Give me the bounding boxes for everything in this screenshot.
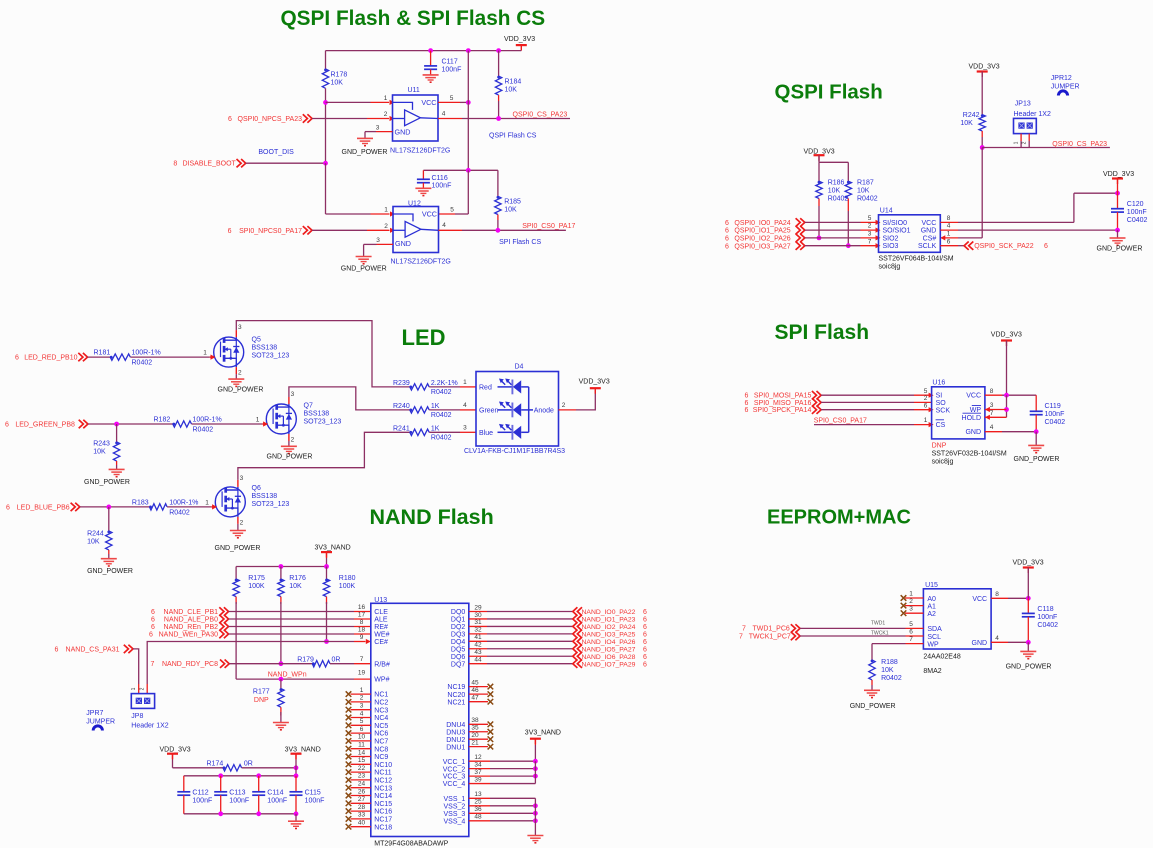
svg-text:8: 8 [995, 591, 999, 598]
ground under C116 [415, 187, 431, 189]
svg-text:Green: Green [479, 407, 499, 414]
svg-text:VSS_2: VSS_2 [444, 803, 466, 810]
svg-text:VCC: VCC [922, 220, 937, 227]
svg-text:Blue: Blue [479, 430, 493, 437]
svg-text:SPI0_NPCS0_PA17: SPI0_NPCS0_PA17 [239, 228, 302, 235]
wire VCC_1 to 3V3_NAND [490, 760, 535, 762]
pin NC13 no-connect U13 [351, 787, 371, 789]
svg-text:2: 2 [240, 519, 244, 526]
svg-text:R239: R239 [393, 380, 410, 387]
node cap gnd rail C113 [218, 811, 223, 816]
svg-text:C0402: C0402 [1045, 419, 1066, 426]
svg-text:10K: 10K [857, 187, 870, 194]
capacitor C116 [422, 170, 424, 179]
wire REn [229, 626, 355, 628]
svg-text:DISABLE_BOOT: DISABLE_BOOT [183, 161, 237, 168]
svg-text:100nF: 100nF [267, 797, 287, 804]
svg-text:4: 4 [463, 402, 467, 409]
svg-text:100R-1%: 100R-1% [169, 500, 198, 507]
capacitor C118 [1027, 598, 1029, 613]
svg-text:3: 3 [868, 231, 872, 238]
svg-text:DQ3: DQ3 [451, 631, 466, 638]
svg-text:CLE: CLE [374, 609, 388, 616]
svg-text:100nF: 100nF [442, 66, 462, 73]
svg-text:Q7: Q7 [304, 403, 313, 410]
svg-text:DNU4: DNU4 [446, 722, 465, 729]
wire WEn [229, 633, 355, 635]
svg-text:100nF: 100nF [1045, 411, 1065, 418]
svg-text:2: 2 [384, 111, 388, 118]
wire VSS_4 to ground [490, 820, 535, 822]
svg-text:4: 4 [947, 223, 951, 230]
svg-text:21: 21 [471, 739, 479, 746]
svg-text:NC20: NC20 [447, 692, 465, 699]
svg-text:28: 28 [358, 804, 366, 811]
svg-text:11: 11 [358, 742, 365, 749]
svg-text:100R-1%: 100R-1% [132, 350, 161, 357]
net NAND_WPn wire [236, 678, 354, 680]
wire WP HOLD tie [1006, 395, 1008, 417]
ground GND_POWER right [1110, 237, 1126, 239]
wire QSPI0_NPCS_PA23 to U11 pin2 [312, 118, 367, 120]
svg-text:VDD_3V3: VDD_3V3 [160, 747, 191, 754]
svg-text:2: 2 [1022, 141, 1028, 144]
svg-text:2: 2 [868, 223, 872, 230]
ground GND_POWER caps [288, 820, 304, 822]
net NAND_IO6_PA28 [573, 652, 582, 660]
node R177 junction [279, 677, 284, 682]
wire U16 VCC pin8 [985, 394, 1002, 396]
svg-text:VCC: VCC [966, 393, 981, 400]
svg-text:6: 6 [151, 624, 155, 631]
svg-text:QSPI0_NPCS_PA23: QSPI0_NPCS_PA23 [238, 116, 303, 123]
svg-text:NC14: NC14 [374, 793, 392, 800]
wire R239 to D4 pin1 [429, 386, 460, 388]
pin NC5 no-connect U13 [351, 724, 371, 726]
svg-text:NC4: NC4 [374, 715, 388, 722]
node junction R184 [496, 48, 501, 53]
svg-text:SCK: SCK [936, 407, 951, 414]
wire DISABLE_BOOT [246, 162, 326, 164]
svg-text:6: 6 [643, 646, 647, 653]
svg-text:12: 12 [474, 754, 482, 761]
wire CLE [229, 611, 355, 613]
pin NC1 no-connect U13 [351, 693, 371, 695]
pin NC16 no-connect U13 [351, 810, 371, 812]
svg-text:1: 1 [924, 417, 928, 424]
wire VCC_2 to 3V3_NAND [490, 768, 535, 770]
node rail R176 [279, 564, 284, 569]
node U11 pin1 junction [323, 100, 328, 105]
wire SDA [800, 627, 906, 629]
node rail R180 [324, 564, 329, 569]
svg-text:NC19: NC19 [447, 684, 465, 691]
node C116 rail junction [466, 168, 471, 173]
svg-text:QSPI Flash & SPI Flash CS: QSPI Flash & SPI Flash CS [281, 7, 546, 30]
svg-text:16: 16 [358, 604, 366, 611]
svg-text:6: 6 [643, 654, 647, 661]
svg-text:3: 3 [463, 425, 467, 432]
svg-text:BSS138: BSS138 [304, 411, 330, 418]
svg-text:GND_POWER: GND_POWER [850, 703, 896, 710]
svg-text:C115: C115 [305, 789, 321, 796]
node R187 to IO3 [846, 243, 851, 248]
svg-text:45: 45 [471, 679, 479, 686]
svg-text:6: 6 [745, 400, 749, 407]
svg-text:43: 43 [474, 649, 482, 656]
svg-text:NAND_CS_PA31: NAND_CS_PA31 [66, 646, 120, 653]
ground GND_POWER U12 [356, 256, 372, 258]
svg-text:C117: C117 [442, 59, 458, 66]
wire CS [814, 424, 914, 426]
svg-text:8: 8 [947, 215, 951, 222]
svg-text:5: 5 [924, 388, 928, 395]
svg-text:U16: U16 [932, 379, 945, 386]
transistor Q6 [215, 487, 245, 517]
svg-text:25: 25 [474, 799, 482, 806]
svg-text:SPI Flash CS: SPI Flash CS [499, 239, 541, 246]
svg-text:1: 1 [205, 499, 209, 506]
svg-text:4: 4 [995, 635, 999, 642]
wire U11 pin4 output QSPI0_CS_PA23 [438, 118, 462, 120]
svg-text:CS: CS [936, 422, 946, 429]
svg-text:GND: GND [921, 228, 937, 235]
svg-text:100nF: 100nF [1127, 209, 1147, 216]
wire Q6 source to ground [237, 524, 239, 531]
svg-text:GND_POWER: GND_POWER [1006, 664, 1052, 671]
svg-text:JP8: JP8 [131, 713, 143, 720]
svg-text:R187: R187 [857, 179, 874, 186]
node cap rail C115 [294, 773, 299, 778]
node R185 to output [496, 228, 501, 233]
svg-text:GND_POWER: GND_POWER [215, 545, 261, 552]
pin 2 JP13 [1028, 134, 1030, 141]
node GND junction U16 [1034, 429, 1039, 434]
svg-text:0R: 0R [244, 760, 253, 767]
svg-text:DNU1: DNU1 [446, 744, 465, 751]
svg-text:TWCK1_PC7: TWCK1_PC7 [749, 633, 791, 640]
pin NC17 no-connect U13 [351, 818, 371, 820]
svg-text:13: 13 [474, 791, 482, 798]
ground GND_POWER R188 [864, 689, 880, 691]
resistor R182 [172, 423, 175, 426]
svg-text:SIO3: SIO3 [883, 243, 899, 250]
svg-text:QSPI0_IO3_PA27: QSPI0_IO3_PA27 [734, 243, 790, 250]
svg-text:6: 6 [745, 393, 749, 400]
wire U16 GND pin4 [985, 431, 1002, 433]
svg-text:C116: C116 [432, 175, 448, 182]
svg-text:R178: R178 [331, 72, 348, 79]
svg-text:R0402: R0402 [431, 435, 452, 442]
svg-text:100nF: 100nF [229, 797, 249, 804]
svg-text:C0402: C0402 [1127, 217, 1148, 224]
svg-text:33: 33 [358, 812, 366, 819]
svg-text:GND_POWER: GND_POWER [84, 479, 130, 486]
svg-text:47: 47 [471, 695, 479, 702]
svg-text:1: 1 [384, 95, 388, 102]
node R186 to IO2 [817, 236, 822, 241]
svg-text:42: 42 [474, 642, 482, 649]
svg-text:LED: LED [402, 325, 446, 350]
svg-text:C112: C112 [192, 789, 208, 796]
svg-text:10K: 10K [504, 207, 517, 214]
wire Q5 source to ground [235, 374, 237, 379]
svg-text:1: 1 [203, 350, 207, 357]
svg-text:NC12: NC12 [374, 778, 392, 785]
node R180 CE junction [324, 639, 329, 644]
svg-text:6: 6 [151, 617, 155, 624]
svg-text:SO/SIO1: SO/SIO1 [883, 228, 911, 235]
transistor Q7 [266, 404, 296, 434]
svg-text:TWD1: TWD1 [871, 621, 885, 627]
svg-text:3: 3 [360, 703, 364, 710]
led red element [498, 386, 512, 388]
ground GND_POWER Q7 [281, 445, 297, 447]
ground GND_POWER Q6 [230, 530, 246, 532]
svg-text:10K: 10K [289, 583, 302, 590]
ground GND_POWER U16 [1028, 444, 1044, 446]
svg-text:SCLK: SCLK [918, 243, 937, 250]
svg-text:27: 27 [358, 796, 366, 803]
svg-text:VSS_4: VSS_4 [444, 818, 466, 825]
pin NC7 no-connect U13 [351, 740, 371, 742]
svg-text:NC16: NC16 [374, 809, 392, 816]
svg-text:U15: U15 [925, 582, 938, 589]
svg-text:2: 2 [139, 687, 145, 690]
svg-text:26: 26 [358, 788, 366, 795]
wire QSPI0_CS_PA23 horizontal [982, 147, 1110, 149]
svg-text:30: 30 [474, 612, 482, 619]
svg-text:GND_POWER: GND_POWER [218, 387, 264, 394]
svg-text:18: 18 [358, 627, 366, 634]
wire U14 GND pin4 [940, 229, 958, 231]
svg-text:2: 2 [384, 223, 388, 230]
svg-text:14: 14 [358, 749, 366, 756]
ground under C117 [423, 74, 439, 76]
svg-text:3: 3 [909, 606, 913, 613]
svg-text:NC17: NC17 [374, 817, 392, 824]
svg-text:R0402: R0402 [431, 389, 452, 396]
svg-text:2: 2 [562, 402, 566, 409]
wire NAND_CS to JP8 [133, 649, 139, 684]
pin NC8 no-connect U13 [351, 748, 371, 750]
resistor R188 [871, 644, 873, 660]
svg-text:10: 10 [358, 734, 366, 741]
svg-text:SOT23_123: SOT23_123 [252, 353, 290, 360]
wire VDD to R174 [173, 767, 224, 769]
wire D4 pin2 to VDD [559, 409, 577, 411]
svg-text:1: 1 [909, 591, 913, 598]
svg-text:R/B#: R/B# [374, 661, 390, 668]
svg-text:4: 4 [442, 110, 446, 117]
svg-text:NC8: NC8 [374, 746, 388, 753]
wire cap bottom rail [184, 813, 296, 815]
wire to ground bottom [295, 814, 297, 821]
svg-text:9: 9 [360, 634, 364, 641]
svg-text:QSPI Flash CS: QSPI Flash CS [489, 133, 537, 140]
svg-text:34: 34 [474, 761, 482, 768]
svg-text:R242: R242 [963, 112, 980, 119]
svg-text:6: 6 [643, 624, 647, 631]
resistor R178 [325, 51, 327, 69]
svg-text:DQ7: DQ7 [451, 661, 466, 668]
resistor R239 [409, 386, 412, 389]
svg-text:5: 5 [450, 95, 454, 102]
svg-text:DNU2: DNU2 [446, 737, 465, 744]
wire pullup rail 3V3_NAND [236, 566, 326, 568]
wire WP pullup [872, 643, 906, 645]
svg-text:31: 31 [474, 619, 482, 626]
pin NC15 no-connect U13 [351, 802, 371, 804]
svg-text:QSPI Flash: QSPI Flash [775, 80, 883, 103]
svg-text:R244: R244 [87, 531, 104, 538]
wire IO1 [805, 229, 861, 231]
svg-text:DQ1: DQ1 [451, 617, 466, 624]
svg-text:C114: C114 [267, 789, 283, 796]
svg-text:6: 6 [643, 617, 647, 624]
wire Q5 drain to R239 [236, 321, 409, 387]
svg-text:BOOT_DIS: BOOT_DIS [258, 149, 294, 156]
resistor R176 [280, 567, 282, 580]
svg-text:SCL: SCL [927, 634, 941, 641]
node VCC junction U16 [1004, 393, 1009, 398]
svg-text:3V3_NAND: 3V3_NAND [285, 747, 321, 754]
pin NC10 no-connect U13 [351, 763, 371, 765]
svg-text:NAND_IO2_PA24: NAND_IO2_PA24 [582, 624, 636, 631]
svg-text:NAND_IO5_PA27: NAND_IO5_PA27 [582, 646, 636, 653]
svg-text:3: 3 [238, 324, 242, 331]
resistor R244 [108, 507, 110, 531]
net NAND_IO2_PA24 [573, 622, 582, 630]
svg-text:SI/SIO0: SI/SIO0 [883, 220, 908, 227]
svg-text:6: 6 [643, 661, 647, 668]
wire U12 pin4 output SPI0_CS0_PA17 [439, 229, 463, 231]
svg-text:GND_POWER: GND_POWER [267, 454, 313, 461]
svg-text:6: 6 [725, 228, 729, 235]
svg-text:R0402: R0402 [132, 359, 153, 366]
svg-text:NC21: NC21 [447, 699, 465, 706]
svg-text:U14: U14 [880, 208, 893, 215]
svg-text:DQ2: DQ2 [451, 624, 466, 631]
pin NC11 no-connect U13 [351, 771, 371, 773]
svg-text:2.2K-1%: 2.2K-1% [431, 380, 458, 387]
svg-text:100K: 100K [248, 583, 265, 590]
node R243 junction [114, 422, 119, 427]
svg-text:NAND_IO6_PA28: NAND_IO6_PA28 [582, 654, 636, 661]
svg-text:6: 6 [228, 116, 232, 123]
svg-text:19: 19 [358, 670, 366, 677]
node GND junction U15 [1026, 640, 1031, 645]
wire U15 GND pin4 [991, 641, 1008, 643]
net NAND_IO7_PA29 [573, 659, 582, 667]
svg-text:VDD_3V3: VDD_3V3 [504, 36, 535, 43]
svg-text:VCC_3: VCC_3 [443, 774, 466, 781]
svg-text:VCC: VCC [422, 210, 437, 219]
svg-text:soic8jg: soic8jg [879, 263, 901, 270]
svg-text:NAND_IO0_PA22: NAND_IO0_PA22 [582, 609, 636, 616]
svg-text:7: 7 [742, 626, 746, 633]
svg-text:C118: C118 [1037, 606, 1053, 613]
pin NC14 no-connect U13 [351, 795, 371, 797]
resistor R242 [981, 72, 983, 115]
pin A2 no-connect [905, 612, 923, 614]
wire SPI0_NPCS0_PA17 to U12 pin2 [312, 229, 367, 231]
pin 1 JP13 [1020, 134, 1022, 141]
svg-text:5: 5 [450, 207, 454, 214]
svg-text:VCC_2: VCC_2 [443, 766, 466, 773]
svg-text:R0402: R0402 [881, 675, 902, 682]
svg-text:VCC_4: VCC_4 [443, 781, 466, 788]
svg-text:HOLD: HOLD [962, 415, 981, 422]
led green element [498, 409, 512, 411]
svg-text:NC2: NC2 [374, 700, 388, 707]
pin A1 no-connect [905, 605, 923, 607]
svg-text:SST26VF064B-104I/SM: SST26VF064B-104I/SM [879, 255, 954, 262]
svg-text:NAND_RDY_PC8: NAND_RDY_PC8 [162, 661, 218, 668]
svg-text:VDD_3V3: VDD_3V3 [991, 331, 1022, 338]
svg-text:2: 2 [291, 437, 295, 444]
net NAND_IO0_PA22 [573, 607, 582, 615]
capacitor C113 [220, 776, 222, 792]
svg-text:DNU3: DNU3 [446, 729, 465, 736]
svg-text:NL17SZ126DFT2G: NL17SZ126DFT2G [390, 147, 450, 154]
svg-text:GND_POWER: GND_POWER [341, 266, 387, 273]
svg-text:3: 3 [240, 475, 244, 482]
svg-text:NAND_IO1_PA23: NAND_IO1_PA23 [582, 617, 636, 624]
svg-text:3: 3 [376, 124, 380, 131]
svg-text:0R: 0R [332, 657, 341, 664]
svg-text:10K: 10K [505, 87, 518, 94]
svg-text:100nF: 100nF [432, 183, 452, 190]
node junction vertical [466, 48, 471, 53]
svg-text:QSPI0_IO1_PA25: QSPI0_IO1_PA25 [734, 228, 790, 235]
svg-text:JPR12: JPR12 [1051, 75, 1072, 82]
svg-text:6: 6 [947, 238, 951, 245]
svg-text:VDD_3V3: VDD_3V3 [1013, 560, 1044, 567]
wire RDY to R179 [229, 663, 312, 665]
svg-text:WP#: WP# [374, 677, 389, 684]
svg-text:SI: SI [936, 393, 943, 400]
svg-text:R179: R179 [297, 657, 314, 664]
svg-text:Q6: Q6 [252, 485, 261, 492]
pin NC2 no-connect U13 [351, 701, 371, 703]
wire NAND_IO6_PA28 [487, 655, 573, 657]
svg-text:1: 1 [384, 207, 388, 214]
svg-text:ALE: ALE [374, 617, 388, 624]
svg-text:10K: 10K [881, 667, 894, 674]
wire anode bus [528, 387, 530, 432]
svg-text:DNP: DNP [254, 697, 269, 704]
wire MOSI [821, 394, 914, 396]
node cap rail C113 [218, 773, 223, 778]
ground GND U13 [527, 835, 543, 837]
svg-text:QSPI0_IO2_PA26: QSPI0_IO2_PA26 [734, 236, 790, 243]
svg-text:6: 6 [151, 609, 155, 616]
wire R176 to RB [280, 602, 282, 664]
svg-text:SOT23_123: SOT23_123 [304, 419, 342, 426]
svg-text:DQ6: DQ6 [451, 654, 466, 661]
resistor R243 [116, 424, 118, 442]
svg-text:17: 17 [358, 612, 366, 619]
svg-text:1K: 1K [431, 403, 440, 410]
pin NC3 no-connect U13 [351, 709, 371, 711]
wire NAND_IO7_PA29 [487, 663, 573, 665]
svg-text:6: 6 [725, 243, 729, 250]
ground GND_POWER R243 [109, 468, 125, 470]
svg-text:NAND_WPn: NAND_WPn [268, 672, 307, 679]
wire R179 to U13 [330, 663, 354, 665]
svg-text:1: 1 [360, 687, 364, 694]
